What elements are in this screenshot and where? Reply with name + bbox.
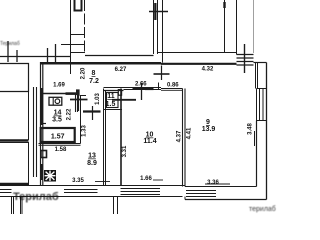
svg-text:Терилаб: Терилаб xyxy=(13,191,59,203)
svg-text:1.57: 1.57 xyxy=(51,134,65,141)
svg-text:14: 14 xyxy=(54,110,62,117)
svg-text:1.66: 1.66 xyxy=(140,176,152,182)
svg-text:4.37: 4.37 xyxy=(177,130,183,142)
svg-text:7.2: 7.2 xyxy=(89,78,99,85)
svg-text:0.86: 0.86 xyxy=(167,83,179,89)
svg-text:11.4: 11.4 xyxy=(143,138,156,145)
svg-text:2.20: 2.20 xyxy=(81,67,87,79)
svg-text:3.5: 3.5 xyxy=(52,117,62,124)
svg-text:11: 11 xyxy=(107,93,115,100)
svg-text:Терилаб: Терилаб xyxy=(0,41,20,47)
svg-text:13.9: 13.9 xyxy=(202,126,216,133)
svg-text:6.27: 6.27 xyxy=(115,67,127,73)
svg-text:3.48: 3.48 xyxy=(248,123,254,135)
svg-text:13: 13 xyxy=(88,153,96,160)
svg-text:3.36: 3.36 xyxy=(207,180,219,186)
svg-text:9: 9 xyxy=(206,119,210,126)
svg-text:терилаб: терилаб xyxy=(249,205,276,213)
svg-text:3.31: 3.31 xyxy=(122,145,128,157)
svg-text:2.22: 2.22 xyxy=(67,108,73,120)
svg-text:4.41: 4.41 xyxy=(187,127,193,139)
svg-text:3.35: 3.35 xyxy=(72,178,84,184)
svg-text:1.69: 1.69 xyxy=(53,83,65,89)
svg-text:1.03: 1.03 xyxy=(95,93,101,105)
svg-text:4.32: 4.32 xyxy=(202,67,214,73)
svg-text:2.66: 2.66 xyxy=(135,82,147,88)
svg-text:1.58: 1.58 xyxy=(55,147,67,153)
svg-text:8.9: 8.9 xyxy=(87,160,97,167)
svg-text:1.33: 1.33 xyxy=(82,125,88,137)
svg-text:8: 8 xyxy=(92,70,96,77)
svg-text:1.5: 1.5 xyxy=(106,101,116,108)
